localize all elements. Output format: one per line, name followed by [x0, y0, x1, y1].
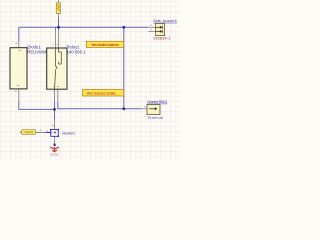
- ground net junction square: [54, 144, 56, 146]
- mosfet Q1 gate pin tick: [47, 130, 48, 132]
- svg-text:140-005-1: 140-005-1: [67, 49, 87, 54]
- relay K1 bottom pins: [55, 89, 58, 101]
- label box Vers d'autres switches: [86, 41, 123, 47]
- connector J1 value text 282834-1: [153, 37, 170, 41]
- wire relay pinA to rail: [54, 102, 56, 110]
- relay designator text Relay1: [67, 44, 87, 54]
- wire diode bottom riser: [18, 102, 20, 110]
- wire left riser: [18, 27, 20, 41]
- diode pin number 2: [15, 90, 17, 92]
- relay pin numbers top: [53, 44, 58, 46]
- junction riser/top rail: [122, 26, 125, 29]
- junction drain/bottom rail: [53, 108, 56, 111]
- svg-text:GND: GND: [51, 153, 60, 157]
- diode D1 body: [10, 48, 27, 89]
- mosfet Q1 pin number 1: [52, 125, 53, 127]
- wire relay top pins blue stubs: [56, 27, 59, 29]
- relay K1 body: [47, 48, 67, 89]
- wire right riser: [123, 27, 125, 109]
- resistor R1 body: [22, 130, 36, 135]
- diode D1 pins: [18, 42, 20, 102]
- relay K1 top pins: [56, 30, 59, 49]
- mosfet Q1 drain pin: [54, 120, 56, 130]
- svg-text:Connect_RNC1: Connect_RNC1: [147, 99, 168, 104]
- junction riser/bottom rail: [122, 107, 125, 110]
- connector Connect_RNC1 pin number 1: [144, 106, 145, 108]
- wire bottom rail left: [19, 108, 55, 110]
- wire gate: [45, 132, 51, 134]
- svg-text:282834-1: 282834-1: [153, 37, 170, 41]
- fuse F1 pins: [58, 0, 60, 17]
- mosfet Q1 body: [47, 129, 59, 137]
- resistor R1 pin number 1: [40, 129, 41, 131]
- connector Connect_RNC1 value text Terminal: [147, 116, 163, 120]
- connector Connect_RNC1 label: [147, 99, 168, 104]
- mosfet designator text Mosfet1: [62, 132, 75, 136]
- ground GND symbol: [50, 146, 59, 152]
- svg-text:Terminal: Terminal: [147, 116, 163, 120]
- diode designator text Diode1: [27, 44, 56, 54]
- connector J1 pins: [148, 27, 155, 31]
- fuse F1 body: [56, 3, 60, 14]
- wire mosfet drain drop: [54, 109, 56, 119]
- svg-text:Vers d'autres sorties: Vers d'autres sorties: [87, 92, 117, 96]
- wire fuse drop: [58, 17, 60, 27]
- junction fuse/top rail: [57, 26, 60, 29]
- diode pin number 1: [15, 43, 17, 45]
- connector Connect_RNC1 pin: [141, 108, 147, 110]
- ground GND text: [51, 153, 60, 157]
- connector J1 Side_buzzer1 label: [153, 18, 178, 23]
- resistor R1 leads: [20, 132, 45, 134]
- connector Connect_RNC1 body: [147, 105, 160, 115]
- svg-text:Side_buzzer1: Side_buzzer1: [153, 18, 178, 23]
- relay pin numbers bottom: [53, 90, 58, 92]
- connector J1 pin numbers: [150, 25, 151, 29]
- wire top rail: [19, 26, 149, 28]
- svg-text:Mosfet1: Mosfet1: [62, 132, 75, 136]
- connector J1 body: [155, 23, 164, 35]
- mosfet Q1 source pin: [54, 136, 56, 143]
- wire bottom rail right: [58, 102, 141, 109]
- label box Vers d'autres sorties: [83, 90, 124, 97]
- svg-text:Vers d'autres switches: Vers d'autres switches: [91, 43, 119, 47]
